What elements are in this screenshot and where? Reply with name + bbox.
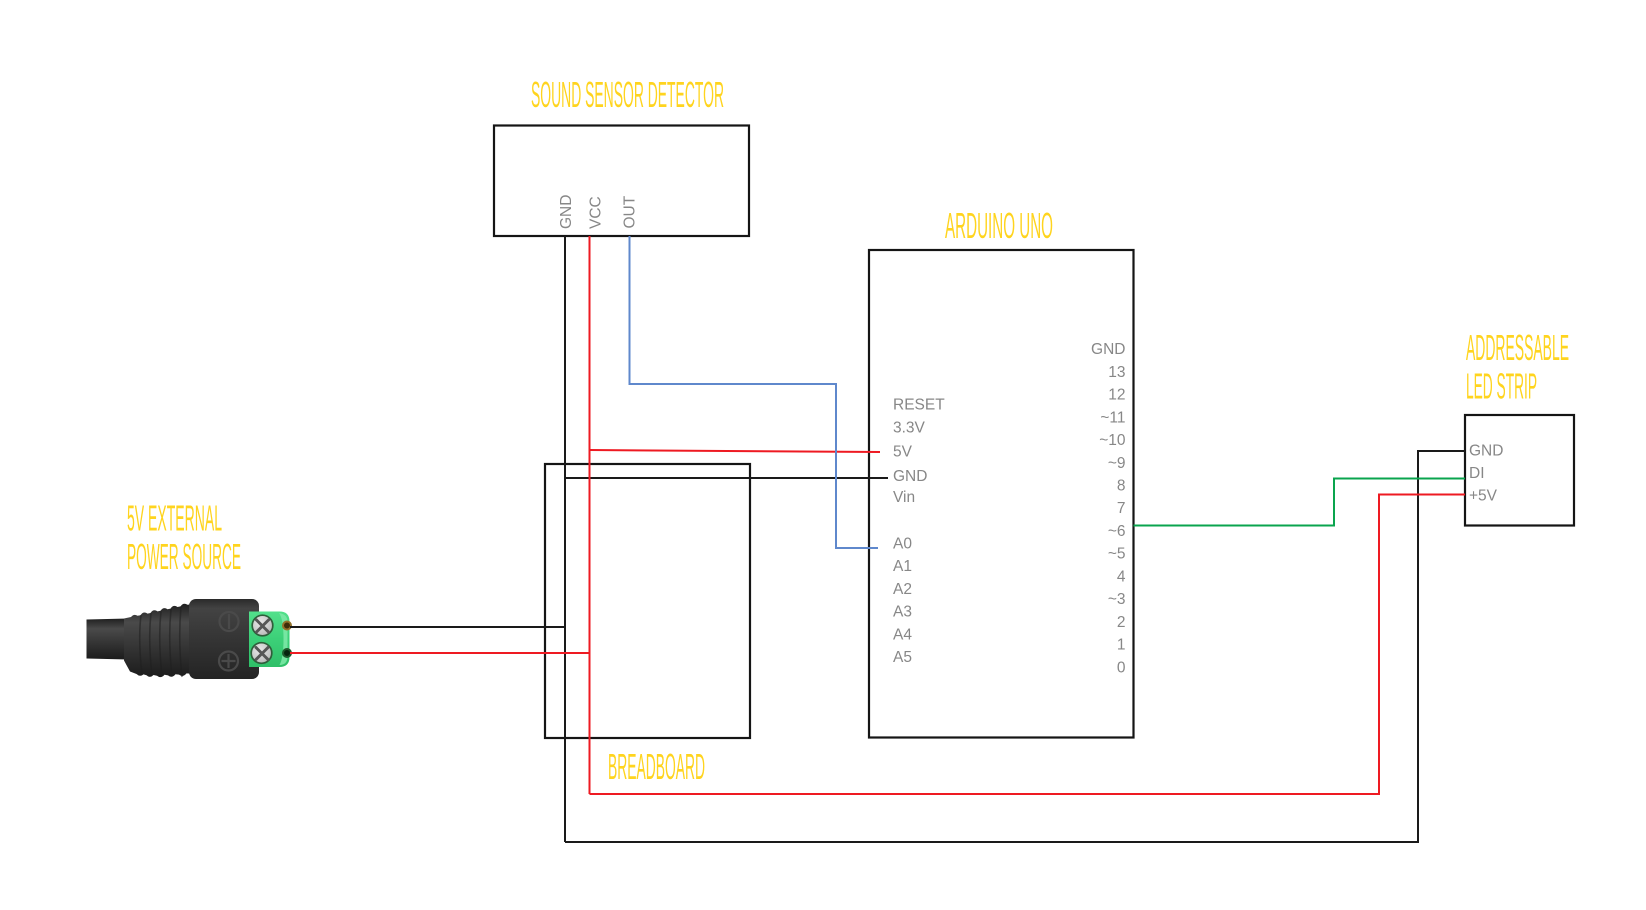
wire: blue OUT to arduino A0 [630,236,879,548]
svg-text:DI: DI [1469,465,1485,482]
svg-text:GND: GND [558,195,575,229]
wire: red from power jack to VCC net [290,652,590,654]
wire entry hole (black wire) [283,622,291,630]
5V external power source: barrel jack body [189,599,259,679]
sound sensor detector box [494,126,749,237]
svg-text:5V: 5V [893,444,913,461]
svg-text:RESET: RESET [893,397,945,414]
svg-text:0: 0 [1117,659,1126,676]
arduino uno box [869,250,1134,738]
polarity symbol: negative (circle with bar) [220,612,239,631]
svg-text:VCC: VCC [588,196,605,229]
wire: black GND bottom run to led strip [565,451,1465,842]
wire: black GND branch to arduino GND [565,477,888,479]
svg-text:~6: ~6 [1108,523,1126,540]
svg-text:A3: A3 [893,604,912,621]
wire entry hole (red wire) [283,649,291,657]
svg-text:A2: A2 [893,581,912,598]
svg-text:1: 1 [1117,637,1126,654]
svg-text:12: 12 [1108,387,1125,404]
svg-text:~3: ~3 [1108,591,1126,608]
breadboard box [545,464,750,738]
wire: red VCC vertical from sound sensor [589,236,591,794]
wire: red bottom run to led strip +5V [590,495,1466,795]
5V external power source: cable [87,619,131,660]
polarity symbol: positive (circle with plus) [219,652,238,671]
svg-text:SOUND SENSOR DETECTOR: SOUND SENSOR DETECTOR [531,74,724,115]
screw top (negative terminal) [252,615,273,636]
svg-text:GND: GND [1469,442,1503,459]
svg-text:A0: A0 [893,536,912,553]
svg-text:~10: ~10 [1099,432,1126,449]
svg-text:A1: A1 [893,558,912,575]
svg-text:GND: GND [1091,341,1125,358]
svg-text:7: 7 [1117,500,1126,517]
svg-text:4: 4 [1117,568,1126,585]
svg-text:~5: ~5 [1108,546,1126,563]
svg-text:~11: ~11 [1100,409,1125,426]
svg-text:ARDUINO UNO: ARDUINO UNO [945,205,1053,246]
wire: black from power jack to GND net [290,626,565,628]
svg-text:A5: A5 [893,649,912,666]
svg-text:13: 13 [1108,364,1125,381]
wire: green arduino ~6 to led strip DI [1134,479,1466,526]
svg-text:A4: A4 [893,627,912,644]
svg-text:GND: GND [893,468,927,485]
svg-text:ADDRESSABLE: ADDRESSABLE [1466,327,1569,368]
svg-text:+5V: +5V [1469,487,1498,504]
screw bottom (positive terminal) [251,643,272,664]
svg-text:3.3V: 3.3V [893,420,926,437]
svg-text:POWER SOURCE: POWER SOURCE [127,536,241,577]
wire: black GND vertical from sound sensor [564,236,566,842]
wire: red branch to arduino 5V [590,450,881,452]
svg-text:OUT: OUT [622,195,639,228]
svg-text:Vin: Vin [893,489,915,506]
svg-text:5V EXTERNAL: 5V EXTERNAL [127,498,222,539]
svg-text:8: 8 [1117,478,1126,495]
svg-text:LED STRIP: LED STRIP [1466,366,1537,407]
green screw terminal block [249,612,290,668]
terminal block right highlight face [279,613,288,665]
svg-text:BREADBOARD: BREADBOARD [608,746,705,787]
svg-text:~9: ~9 [1108,455,1126,472]
svg-text:2: 2 [1117,614,1126,631]
strain relief rib shading lines [140,607,182,678]
addressable led strip box [1465,415,1574,526]
5V external power source: ribbed strain relief [124,604,192,677]
